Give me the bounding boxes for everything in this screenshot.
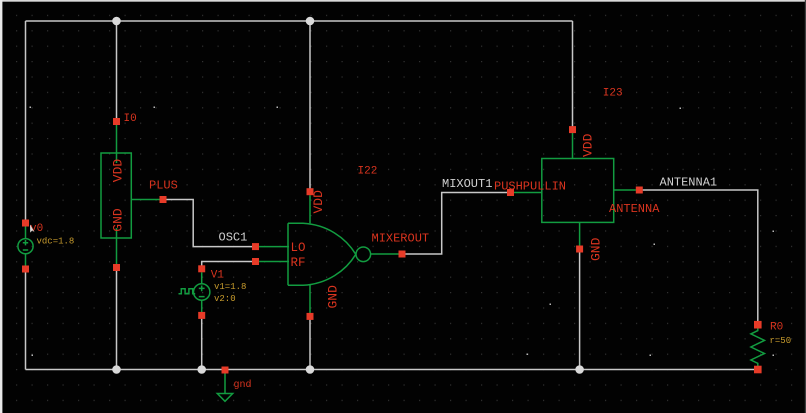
- red terminal pins: [22, 118, 762, 374]
- pin RF: [252, 258, 259, 265]
- nor gate OSC1 body: [288, 223, 356, 285]
- svg-text:LO: LO: [291, 241, 306, 255]
- gnd symbol lead: [224, 374, 226, 394]
- V1 leads: [201, 272, 203, 312]
- svg-text:vdc=1.8: vdc=1.8: [37, 237, 75, 247]
- junction bottom bus x201: [197, 365, 206, 374]
- wire top bus to gate VDD pin: [309, 21, 311, 189]
- pin I23 VDD: [569, 126, 576, 133]
- op gate input stubs LO RF: [259, 247, 289, 262]
- wire gate GND pin to bottom bus: [309, 320, 311, 370]
- svg-text:GND: GND: [111, 208, 126, 232]
- wire PLUS net: [166, 200, 252, 247]
- pin MIXEROUT: [399, 251, 406, 258]
- wire top bus to I0 VDD pin: [116, 21, 118, 118]
- pin V1 plus: [198, 265, 205, 272]
- svg-text:R0: R0: [770, 322, 783, 334]
- I23 ANTENNA lead: [614, 189, 636, 191]
- svg-text:VDD: VDD: [581, 133, 596, 157]
- wire RF net from V1: [202, 262, 253, 266]
- wire ANTENNA1 net: [643, 190, 758, 321]
- wire MIXEROUT net: [405, 193, 507, 255]
- gate GND stub: [309, 285, 311, 313]
- junction bottom bus x116: [112, 365, 121, 374]
- V1 pulse squiggle: [179, 289, 196, 294]
- svg-text:MIXEROUT: MIXEROUT: [372, 232, 430, 246]
- svg-text:gnd: gnd: [234, 379, 252, 391]
- pin R0 bottom: [754, 366, 762, 374]
- I23 GND lead: [579, 222, 581, 245]
- resistor R0 zigzag: [751, 328, 765, 366]
- wire top VDD bus: [26, 20, 573, 22]
- V1 source circle: [194, 284, 210, 300]
- nor gate output bubble: [356, 247, 371, 262]
- pin I23 GND: [576, 246, 583, 253]
- svg-text:VDD: VDD: [111, 159, 126, 183]
- pin gate VDD: [307, 188, 314, 195]
- pin LO: [252, 243, 259, 250]
- junction bottom bus x580: [575, 365, 584, 374]
- junction top bus x310: [306, 17, 315, 26]
- pin I0 GND: [113, 264, 120, 271]
- V0 leads: [25, 226, 27, 265]
- pin PUSHPULLIN: [507, 189, 514, 196]
- pin V0 minus: [22, 266, 29, 273]
- svg-text:VDD: VDD: [311, 190, 326, 214]
- svg-text:RF: RF: [291, 256, 306, 270]
- svg-text:ANTENNA: ANTENNA: [609, 202, 660, 216]
- svg-text:PUSHPULLIN: PUSHPULLIN: [494, 180, 566, 194]
- svg-text:v2:0: v2:0: [214, 294, 236, 304]
- I23 VDD lead: [572, 133, 574, 159]
- pin PLUS: [160, 196, 167, 203]
- PUSHPULLIN stub into I23: [514, 192, 542, 194]
- bright stray grid dots: [30, 107, 775, 357]
- V1 plus minus: [199, 286, 205, 297]
- wire I23 GND pin to bottom bus: [579, 252, 581, 369]
- V0 plus minus: [23, 240, 28, 250]
- I0 bottom lead: [116, 228, 118, 264]
- pin V1 minus: [198, 312, 205, 319]
- wire bottom GND bus: [26, 369, 758, 371]
- gate VDD stub: [309, 195, 311, 223]
- wire V1 bottom pin to bottom bus: [201, 319, 203, 370]
- svg-text:GND: GND: [589, 237, 604, 261]
- svg-text:GND: GND: [326, 285, 341, 309]
- svg-text:ANTENNA1: ANTENNA1: [660, 176, 718, 190]
- I0 vdd symbol box: [101, 153, 131, 238]
- pin ANTENNA: [636, 187, 643, 194]
- mouse cursor mark: [30, 225, 35, 233]
- bubble to MIXEROUT pin stub: [371, 253, 399, 255]
- wire left vertical (V0 to bottom bus): [25, 272, 27, 369]
- pin R0 top: [754, 321, 762, 329]
- svg-text:I23: I23: [603, 88, 623, 100]
- svg-text:PLUS: PLUS: [149, 179, 178, 193]
- svg-text:I22: I22: [358, 165, 378, 177]
- svg-text:v1=1.8: v1=1.8: [214, 282, 246, 292]
- wire top bus corner down to I23 VDD pin: [572, 21, 574, 126]
- gnd symbol triangle: [217, 394, 232, 402]
- wire I0 GND pin to bottom bus: [116, 271, 118, 370]
- pin V0 plus: [22, 220, 29, 227]
- wire left vertical (top bus to V0): [25, 21, 27, 220]
- svg-text:r=50: r=50: [770, 336, 792, 346]
- window border edges: [0, 0, 806, 2]
- junction top bus x116: [112, 17, 121, 26]
- I0 right lead (PLUS): [131, 199, 160, 201]
- pin gate GND: [307, 313, 314, 320]
- junction bottom bus x310: [306, 365, 315, 374]
- svg-text:MIXOUT1: MIXOUT1: [442, 177, 492, 191]
- I23 mixer box: [542, 159, 614, 223]
- svg-text:V1: V1: [211, 270, 225, 282]
- pin I0 VDD: [113, 118, 120, 125]
- svg-text:I0: I0: [124, 113, 137, 125]
- I0 top lead: [116, 125, 118, 163]
- V0 source circle: [18, 239, 33, 254]
- pin gnd symbol: [222, 367, 229, 374]
- svg-text:OSC1: OSC1: [219, 231, 248, 245]
